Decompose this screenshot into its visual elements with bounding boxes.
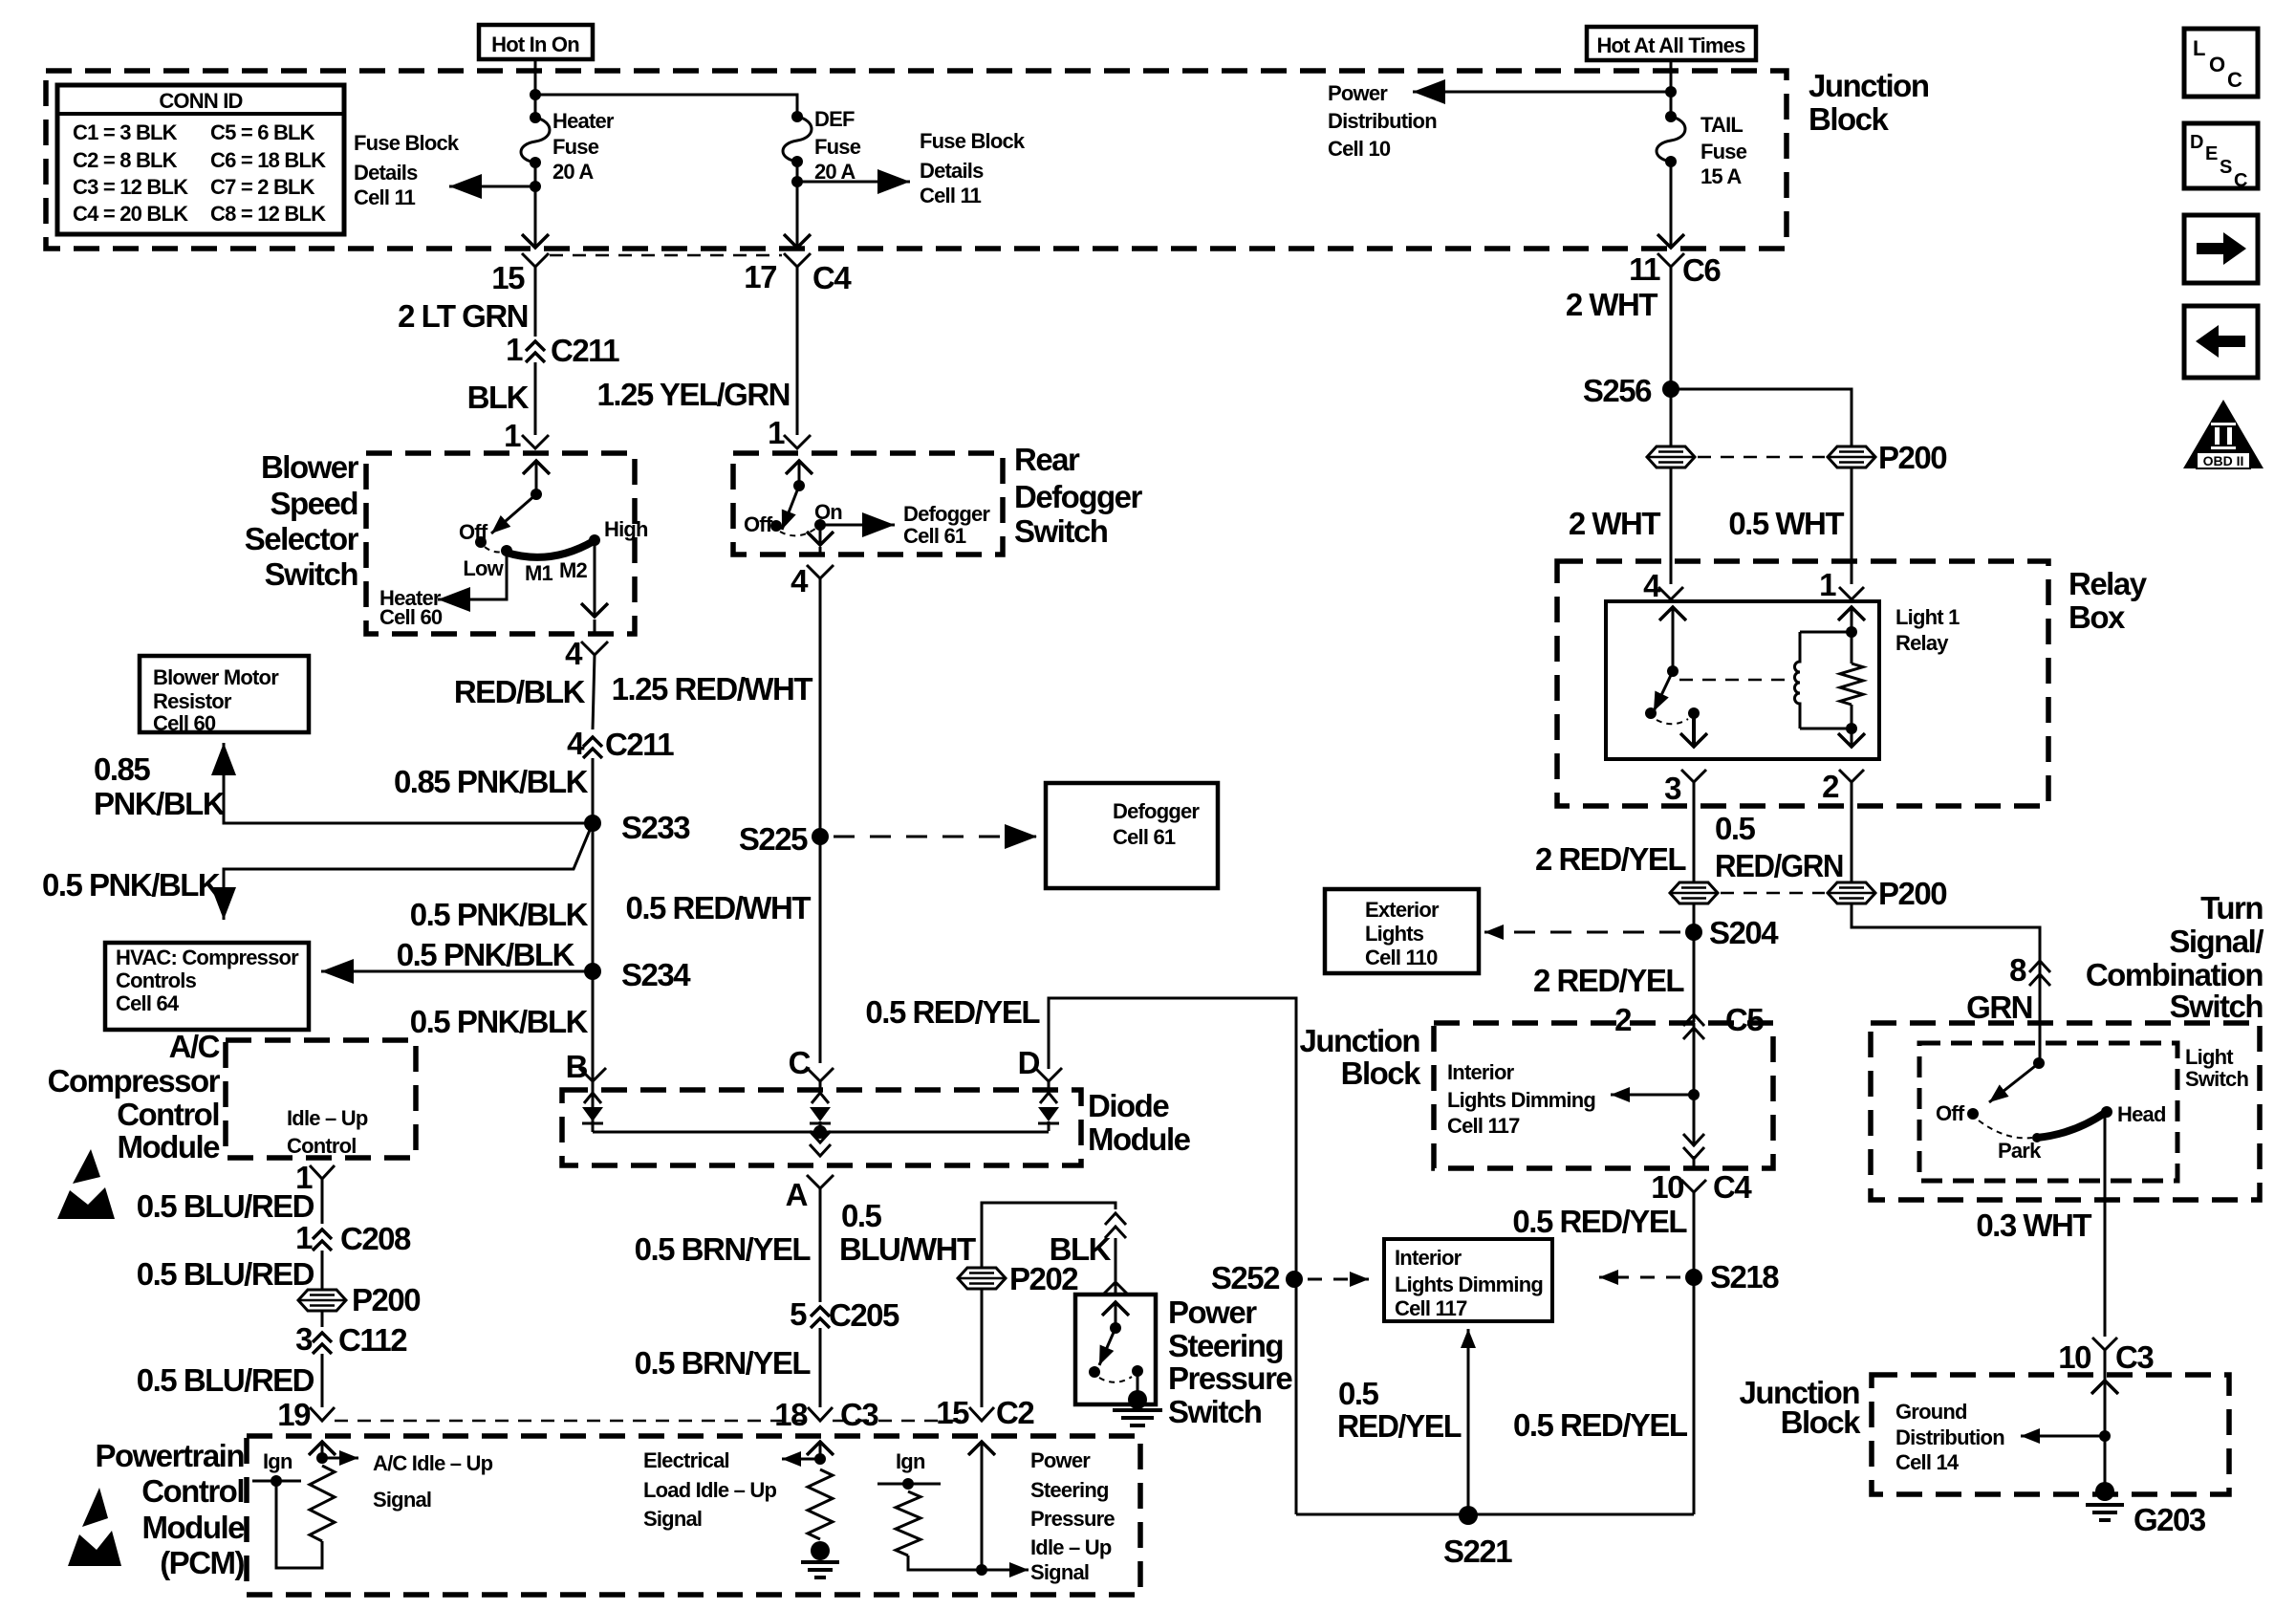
svg-text:1: 1 xyxy=(506,332,523,367)
svg-text:Distribution: Distribution xyxy=(1328,109,1437,133)
svg-text:C2 = 8 BLK: C2 = 8 BLK xyxy=(73,148,178,172)
svg-text:Switch: Switch xyxy=(1168,1394,1262,1429)
svg-text:20 A: 20 A xyxy=(814,160,856,184)
svg-text:Heater: Heater xyxy=(552,109,615,133)
wire High output xyxy=(594,540,596,617)
wire resistor to pin 2 xyxy=(1851,705,1853,729)
PSP switch input arrow xyxy=(1115,1302,1117,1328)
arrow fuse block details right xyxy=(801,181,910,184)
wire PSP right contact to ground xyxy=(1137,1371,1139,1398)
ground symbol G203 xyxy=(2086,1503,2124,1507)
icon box right arrow xyxy=(2184,215,2258,283)
svg-text:0.5 PNK/BLK: 0.5 PNK/BLK xyxy=(410,897,589,932)
svg-text:Cell 61: Cell 61 xyxy=(903,524,966,548)
svg-text:A/C: A/C xyxy=(169,1029,220,1064)
dashed arrow S225 to defogger cell xyxy=(834,836,1037,838)
svg-text:DEF: DEF xyxy=(814,107,855,131)
node ground dot electrical load xyxy=(811,1541,830,1560)
light switch moving contact arrow xyxy=(1989,1063,2039,1102)
fuse TAIL Fuse 15 A xyxy=(1665,111,1677,122)
svg-text:Details: Details xyxy=(920,159,984,183)
resistor electrical load xyxy=(808,1469,833,1539)
svg-text:Steering: Steering xyxy=(1168,1328,1283,1363)
wire coil top link xyxy=(1800,631,1852,634)
svg-text:Distribution: Distribution xyxy=(1895,1425,2004,1449)
svg-text:Relay: Relay xyxy=(1895,631,1949,655)
fuse Heater Fuse 20 A xyxy=(530,112,541,123)
node Head contact xyxy=(2101,1106,2112,1118)
svg-text:L: L xyxy=(2193,36,2205,60)
connector pin 1 blower switch xyxy=(522,435,549,448)
node resistor top xyxy=(316,1452,328,1464)
svg-text:Junction: Junction xyxy=(1300,1023,1420,1058)
svg-text:D: D xyxy=(1018,1045,1040,1080)
svg-text:0.5 RED/YEL: 0.5 RED/YEL xyxy=(1513,1407,1688,1443)
svg-text:Cell 110: Cell 110 xyxy=(1365,946,1438,969)
defogger cell 61 box xyxy=(1046,783,1218,888)
svg-text:C3: C3 xyxy=(840,1397,878,1432)
svg-text:C: C xyxy=(2227,68,2242,92)
node G203 ground dot xyxy=(2095,1482,2114,1501)
svg-text:Fuse: Fuse xyxy=(1700,140,1747,163)
svg-text:0.5 BLU/RED: 0.5 BLU/RED xyxy=(137,1188,314,1224)
svg-text:Pressure: Pressure xyxy=(1030,1507,1115,1531)
wire S221 bottom run xyxy=(1296,1513,1694,1516)
wire P200 right to 8 GRN xyxy=(1852,903,2040,952)
svg-text:S252: S252 xyxy=(1211,1260,1280,1295)
svg-text:RED/YEL: RED/YEL xyxy=(1337,1408,1462,1444)
arrow fuse block details left xyxy=(449,185,531,188)
exterior lights box xyxy=(1325,889,1479,973)
A/C compressor control module dashed box xyxy=(226,1040,416,1158)
node fuse feed junction xyxy=(530,89,541,100)
svg-text:D: D xyxy=(2190,132,2203,153)
resistor A/C idle-up xyxy=(310,1466,335,1541)
svg-text:Combination: Combination xyxy=(2086,957,2263,992)
node coil top tap xyxy=(1846,626,1857,638)
node S256 xyxy=(1662,381,1679,398)
svg-text:11: 11 xyxy=(1629,251,1660,287)
node DEF details tap xyxy=(791,176,803,187)
svg-text:Compressor: Compressor xyxy=(48,1063,221,1099)
svg-text:3: 3 xyxy=(295,1321,313,1357)
svg-text:3: 3 xyxy=(1664,771,1681,806)
PCM power steering input arrow xyxy=(981,1442,984,1570)
svg-text:Module: Module xyxy=(1088,1121,1191,1157)
node heater details tap xyxy=(530,181,541,192)
CONN ID table box xyxy=(57,85,344,234)
node defogger On contact xyxy=(814,519,826,531)
svg-text:M2: M2 xyxy=(559,558,588,582)
connector pin D diode module xyxy=(1035,1068,1062,1081)
svg-text:Cell 64: Cell 64 xyxy=(116,991,180,1015)
wire TAIL fuse to pin 11 xyxy=(1670,163,1673,248)
node PSP right contact xyxy=(1132,1365,1143,1377)
arrow S221 to interior dimming box xyxy=(1467,1329,1470,1514)
resistor PSP idle-up xyxy=(896,1491,921,1556)
svg-text:5: 5 xyxy=(790,1296,807,1332)
node PSP common xyxy=(1110,1322,1121,1334)
connector pair below bus xyxy=(810,1144,831,1156)
svg-text:Hot At All Times: Hot At All Times xyxy=(1596,33,1745,57)
wire 2 C5 into junction block xyxy=(1693,1023,1696,1146)
svg-text:Speed: Speed xyxy=(270,486,357,521)
svg-text:Fuse: Fuse xyxy=(814,135,861,159)
svg-text:Head: Head xyxy=(2117,1102,2166,1126)
connector P200 left (relay) xyxy=(1670,882,1718,903)
svg-text:Relay: Relay xyxy=(2069,566,2148,601)
svg-text:BLU/WHT: BLU/WHT xyxy=(839,1231,976,1267)
wire DEF fuse to pin 17 xyxy=(796,160,799,248)
node PSP ground dot xyxy=(1128,1390,1147,1409)
svg-text:Fuse Block: Fuse Block xyxy=(354,131,460,155)
node S234 xyxy=(584,963,601,980)
svg-text:Exterior: Exterior xyxy=(1365,898,1440,922)
junction block (top) dashed boundary xyxy=(46,71,1787,249)
node diode bus junction xyxy=(813,1125,827,1139)
svg-text:BLK: BLK xyxy=(467,380,530,415)
junction block (middle) dashed boundary xyxy=(1434,1023,1773,1168)
connector pin 17 C4 xyxy=(784,253,811,267)
svg-text:S218: S218 xyxy=(1710,1259,1779,1295)
svg-text:C7 = 2 BLK: C7 = 2 BLK xyxy=(210,175,315,199)
svg-text:On: On xyxy=(814,500,842,524)
wire 0.5 RED/YEL to S218 xyxy=(1693,1192,1696,1514)
connector pair on BLK wire xyxy=(1105,1213,1126,1225)
svg-text:S: S xyxy=(2220,157,2232,178)
relay coil xyxy=(1795,632,1801,729)
svg-text:C8 = 12 BLK: C8 = 12 BLK xyxy=(210,202,326,226)
svg-text:Cell 60: Cell 60 xyxy=(153,711,216,735)
svg-text:Load Idle – Up: Load Idle – Up xyxy=(643,1478,777,1502)
svg-text:1.25 YEL/GRN: 1.25 YEL/GRN xyxy=(597,377,790,412)
svg-text:Cell 14: Cell 14 xyxy=(1895,1450,1960,1474)
diode module dashed box xyxy=(562,1090,1081,1165)
connector P200 right (TAIL) xyxy=(1828,446,1875,468)
wire 8 GRN riser xyxy=(2039,952,2042,1063)
blower motor resistor box xyxy=(140,656,309,732)
svg-text:P200: P200 xyxy=(352,1282,420,1317)
svg-text:Diode: Diode xyxy=(1088,1088,1169,1123)
svg-text:Idle – Up: Idle – Up xyxy=(1030,1535,1112,1559)
svg-text:Junction: Junction xyxy=(1809,68,1929,103)
svg-text:S256: S256 xyxy=(1583,373,1652,408)
ground symbol PSP xyxy=(1113,1408,1162,1412)
svg-text:P202: P202 xyxy=(1009,1261,1078,1296)
node S252 xyxy=(1286,1271,1303,1288)
connector P200 left (TAIL) xyxy=(1647,446,1695,468)
relay box dashed boundary xyxy=(1557,561,2048,806)
svg-text:C4 = 20 BLK: C4 = 20 BLK xyxy=(73,202,188,226)
svg-text:15: 15 xyxy=(936,1395,969,1430)
node relay switch common xyxy=(1667,665,1679,677)
node defogger Off contact xyxy=(770,520,782,532)
node S218 xyxy=(1685,1269,1702,1286)
fuse DEF Fuse 20 A xyxy=(791,111,803,122)
svg-text:0.5 RED/YEL: 0.5 RED/YEL xyxy=(1512,1204,1687,1239)
node coil bottom tap xyxy=(1846,723,1857,734)
icon box DESC xyxy=(2184,123,2258,188)
svg-text:0.5 BLU/RED: 0.5 BLU/RED xyxy=(137,1362,314,1398)
wire P200 left to S204 xyxy=(1693,903,1696,1022)
svg-text:2 RED/YEL: 2 RED/YEL xyxy=(1535,841,1686,877)
wire RED/BLK xyxy=(593,655,595,729)
dashed arc Off to Low xyxy=(485,547,503,552)
connector pin 1 relay xyxy=(1851,561,1853,584)
svg-text:Defogger: Defogger xyxy=(1014,479,1143,514)
svg-text:E: E xyxy=(2205,143,2218,164)
node elec load resistor top xyxy=(814,1453,826,1465)
wire Hot In On feed xyxy=(534,59,537,118)
svg-text:Defogger: Defogger xyxy=(903,502,990,526)
PCM A/C idle-up resistor arrow xyxy=(321,1442,324,1458)
node relay contact xyxy=(1688,707,1700,719)
connector pin 10 C3 xyxy=(2092,1338,2117,1350)
dashed arrow S204 to exterior lights xyxy=(1484,931,1680,934)
svg-text:HVAC: Compressor: HVAC: Compressor xyxy=(116,946,299,969)
svg-text:Module: Module xyxy=(118,1129,221,1164)
wire defogger input xyxy=(798,461,801,486)
interior lights dimming cell 117 box xyxy=(1384,1239,1552,1321)
power source box Hot In On xyxy=(479,25,593,59)
ESD symbol near PCM xyxy=(82,1488,108,1527)
svg-text:P200: P200 xyxy=(1878,440,1946,475)
svg-text:4: 4 xyxy=(1643,568,1661,603)
rear defogger switch dashed box xyxy=(733,453,1003,555)
svg-text:Switch: Switch xyxy=(2185,1067,2248,1091)
svg-text:0.5 BRN/YEL: 0.5 BRN/YEL xyxy=(635,1345,812,1381)
wire coil bottom link xyxy=(1800,728,1852,730)
svg-text:Block: Block xyxy=(1809,101,1890,137)
svg-text:1: 1 xyxy=(768,415,785,450)
svg-text:Details: Details xyxy=(354,161,418,185)
wire resistor 2 bottom to node xyxy=(908,1556,982,1570)
svg-text:Cell 10: Cell 10 xyxy=(1328,137,1391,161)
dashed arc relay contacts xyxy=(1657,719,1688,724)
svg-text:B: B xyxy=(566,1049,588,1084)
arrow power distribution left xyxy=(1413,91,1667,94)
svg-text:17: 17 xyxy=(744,259,776,294)
svg-text:0.5 PNK/BLK: 0.5 PNK/BLK xyxy=(410,1004,589,1039)
svg-text:0.85: 0.85 xyxy=(94,751,150,787)
connector at pressure switch xyxy=(1102,1282,1129,1295)
connector pin 4 relay xyxy=(1670,561,1673,584)
svg-text:Lights Dimming: Lights Dimming xyxy=(1395,1273,1543,1296)
connector pin 19 xyxy=(310,1407,335,1421)
svg-text:Powertrain: Powertrain xyxy=(95,1438,244,1473)
svg-text:0.5 RED/YEL: 0.5 RED/YEL xyxy=(865,994,1040,1030)
connector pin 2 relay xyxy=(1839,770,1864,782)
svg-text:Interior: Interior xyxy=(1447,1060,1515,1084)
dashed mating line P200 pair (TAIL) xyxy=(1698,456,1825,459)
svg-text:C4: C4 xyxy=(812,260,852,295)
blower switch moving contact arrow xyxy=(491,494,536,533)
wire blower switch input xyxy=(535,461,538,494)
svg-text:8: 8 xyxy=(2009,952,2026,988)
svg-text:Defogger: Defogger xyxy=(1113,799,1200,823)
svg-text:4: 4 xyxy=(565,636,583,671)
svg-text:PNK/BLK: PNK/BLK xyxy=(94,786,226,821)
connector 1 C208 xyxy=(313,1229,332,1239)
connector pin 1 A/C module xyxy=(310,1165,335,1179)
svg-text:RED/BLK: RED/BLK xyxy=(454,674,586,709)
connector pair at junction block bottom xyxy=(1683,1147,1704,1159)
svg-text:0.3 WHT: 0.3 WHT xyxy=(1976,1207,2091,1243)
svg-text:Off: Off xyxy=(1936,1101,1965,1125)
svg-text:C211: C211 xyxy=(551,333,619,368)
svg-text:18: 18 xyxy=(774,1397,808,1432)
svg-text:S233: S233 xyxy=(621,810,690,845)
svg-text:10: 10 xyxy=(1651,1169,1683,1205)
svg-text:0.5 BLU/RED: 0.5 BLU/RED xyxy=(137,1256,314,1292)
svg-text:Cell 117: Cell 117 xyxy=(1447,1114,1520,1138)
blower speed arc Low-M1-M2-High xyxy=(507,541,594,557)
dashed arrow S218 to interior lights dimming box xyxy=(1599,1276,1680,1279)
wire S233 to blower motor resistor xyxy=(224,743,593,823)
wire 0.5 RED/GRN below pin 2 xyxy=(1851,794,1853,882)
node S221 xyxy=(1459,1506,1478,1525)
svg-text:C6 = 18 BLK: C6 = 18 BLK xyxy=(210,148,326,172)
svg-text:Cell 11: Cell 11 xyxy=(354,185,416,209)
svg-text:Control: Control xyxy=(287,1134,357,1158)
svg-text:Resistor: Resistor xyxy=(153,689,232,713)
svg-text:S234: S234 xyxy=(621,957,691,992)
CONN ID header separator xyxy=(57,112,344,116)
light switch arc Park-Head xyxy=(2037,1113,2105,1138)
PCM electrical load arrow xyxy=(819,1442,822,1459)
svg-text:P200: P200 xyxy=(1878,876,1946,911)
wire S256 branch to P200 right xyxy=(1671,389,1852,447)
svg-text:C3: C3 xyxy=(2115,1339,2154,1375)
power steering pressure switch box xyxy=(1075,1295,1156,1404)
svg-text:0.5 RED/WHT: 0.5 RED/WHT xyxy=(625,890,811,925)
svg-text:C4: C4 xyxy=(1713,1169,1752,1205)
svg-text:2: 2 xyxy=(1614,1002,1632,1037)
node Ign dot 2 xyxy=(902,1478,914,1490)
node ground distribution tap xyxy=(2099,1430,2111,1442)
svg-text:Switch: Switch xyxy=(1014,513,1108,549)
svg-text:0.5: 0.5 xyxy=(1715,811,1756,846)
node S204 xyxy=(1685,924,1702,941)
svg-text:0.5 BRN/YEL: 0.5 BRN/YEL xyxy=(635,1231,812,1267)
svg-text:Steering: Steering xyxy=(1030,1478,1109,1502)
arrow On to Defogger Cell 61 xyxy=(820,524,895,527)
svg-text:High: High xyxy=(604,517,648,541)
svg-text:C6: C6 xyxy=(1682,252,1721,288)
wire Hot At All Times feed xyxy=(1670,60,1673,117)
wire defogger output xyxy=(819,525,822,545)
svg-text:CONN ID: CONN ID xyxy=(159,89,242,113)
svg-text:C5 = 6 BLK: C5 = 6 BLK xyxy=(210,120,315,144)
svg-text:C: C xyxy=(789,1045,811,1080)
svg-text:C5: C5 xyxy=(1725,1002,1764,1037)
svg-text:1.25 RED/WHT: 1.25 RED/WHT xyxy=(612,671,813,707)
svg-text:C211: C211 xyxy=(605,727,674,762)
svg-text:Off: Off xyxy=(744,512,773,536)
wire Ign stub 2 xyxy=(877,1483,941,1486)
connector pin 1 defogger switch xyxy=(784,435,811,448)
svg-text:2 LT GRN: 2 LT GRN xyxy=(398,298,528,334)
connector pin 15 C2 xyxy=(969,1407,994,1421)
connector 2 C5 xyxy=(1683,1014,1704,1026)
wire Ign stub xyxy=(252,1480,301,1483)
wire 0.5 BLU/RED 3 xyxy=(321,1354,324,1407)
relay switch arm arrow up xyxy=(1672,607,1675,671)
relay inner box Light 1 Relay xyxy=(1606,601,1879,759)
svg-text:C2: C2 xyxy=(996,1395,1034,1430)
node S233 xyxy=(584,815,601,832)
connector P200 right (relay) xyxy=(1828,882,1875,903)
node blower Low contact xyxy=(501,545,512,556)
connector pin 18 C3 xyxy=(808,1407,833,1421)
svg-text:2 RED/YEL: 2 RED/YEL xyxy=(1533,963,1684,998)
connector 5 C205 xyxy=(811,1307,830,1316)
connector 1 C211 xyxy=(526,341,545,351)
svg-text:C112: C112 xyxy=(338,1322,407,1358)
arrow to interior lights dimming text xyxy=(1611,1094,1694,1097)
diode module bus wire xyxy=(593,1131,1049,1134)
connector pin B diode module xyxy=(579,1068,606,1081)
svg-text:Pressure: Pressure xyxy=(1168,1360,1292,1396)
svg-text:Block: Block xyxy=(1781,1404,1862,1440)
svg-text:Cell 60: Cell 60 xyxy=(379,605,443,629)
relay actuating dashed link xyxy=(1679,679,1787,682)
node defogger common xyxy=(793,480,805,491)
arrow up inside ground block xyxy=(2104,1381,2107,1396)
svg-text:Module: Module xyxy=(142,1510,246,1545)
icon box left arrow xyxy=(2184,306,2258,378)
svg-text:G203: G203 xyxy=(2134,1502,2206,1537)
wire 2 LT GRN xyxy=(534,267,537,337)
svg-text:Control: Control xyxy=(117,1097,219,1132)
svg-text:OBD II: OBD II xyxy=(2203,453,2244,468)
diode at D xyxy=(1048,1081,1051,1093)
svg-text:A: A xyxy=(786,1177,808,1212)
svg-text:S221: S221 xyxy=(1443,1534,1512,1569)
svg-text:Box: Box xyxy=(2069,599,2126,635)
svg-text:2 WHT: 2 WHT xyxy=(1566,287,1658,322)
wire 0.5 RED/YEL from D xyxy=(1049,998,1296,1514)
svg-text:Cell 117: Cell 117 xyxy=(1395,1296,1467,1320)
svg-text:Switch: Switch xyxy=(2170,989,2264,1024)
svg-text:Low: Low xyxy=(463,556,504,580)
svg-text:M1: M1 xyxy=(525,561,553,585)
PCM connector row dashed line xyxy=(335,1420,808,1423)
node PSP signal junction xyxy=(976,1564,987,1576)
power source box Hot At All Times xyxy=(1587,27,1756,60)
svg-text:15: 15 xyxy=(491,260,525,295)
svg-text:Electrical: Electrical xyxy=(643,1448,729,1472)
arrow electrical load idle-up (left) xyxy=(782,1458,820,1461)
svg-text:2: 2 xyxy=(1822,769,1839,804)
svg-text:C3 = 12 BLK: C3 = 12 BLK xyxy=(73,175,188,199)
wire 2 RED/YEL below pin 3 xyxy=(1693,794,1696,883)
connector pin A diode module xyxy=(807,1175,834,1188)
wire 0.5 WHT xyxy=(1851,468,1853,561)
svg-text:O: O xyxy=(2209,53,2225,76)
HVAC compressor controls box xyxy=(105,943,309,1030)
svg-text:S204: S204 xyxy=(1709,915,1779,950)
node S225 xyxy=(812,828,829,845)
connector pin 4 defogger output xyxy=(807,565,834,578)
wire BLK xyxy=(534,362,537,435)
wire Low to heater arrow xyxy=(438,551,507,599)
connector pin 4 blower output xyxy=(581,642,608,655)
svg-text:Light 1: Light 1 xyxy=(1895,605,1960,629)
connector pair 8 GRN xyxy=(2029,961,2050,972)
svg-text:4: 4 xyxy=(791,563,809,598)
svg-text:Hot In On: Hot In On xyxy=(491,33,579,56)
